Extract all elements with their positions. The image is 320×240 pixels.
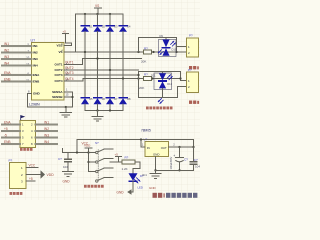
- svg-text:3C1: 3C1: [142, 173, 147, 177]
- svg-text:ENB: ENB: [33, 80, 40, 84]
- connector P3 (motor 2): [187, 68, 199, 93]
- svg-text:OUT4: OUT4: [65, 77, 74, 81]
- wire ground bus: [85, 109, 123, 111]
- svg-text:U?: U?: [31, 39, 36, 43]
- label motor1 (hanzi blobs): [189, 66, 199, 69]
- svg-text:+5: +5: [4, 127, 8, 131]
- svg-text:IN2: IN2: [33, 51, 38, 55]
- svg-text:C?: C?: [184, 158, 188, 162]
- svg-text:+5: +5: [63, 29, 67, 33]
- svg-text:P?: P?: [9, 158, 13, 162]
- wire LED to ground: [132, 181, 134, 192]
- power port VDD (arrow): [41, 170, 55, 179]
- wire P4 right IN4: [36, 140, 58, 144]
- wire P4 right IN1: [36, 121, 58, 125]
- svg-text:ENA: ENA: [33, 73, 40, 77]
- wire IN4: [2, 61, 32, 65]
- wire OUT2: [64, 66, 139, 71]
- wire IN2: [2, 48, 32, 52]
- wire OUT1: [64, 57, 142, 64]
- label control switch (hanzi blobs): [84, 185, 104, 188]
- switch S1 row 2: [89, 159, 114, 164]
- svg-text:D8: D8: [127, 97, 131, 101]
- svg-text:IN1: IN1: [44, 121, 49, 125]
- svg-text:D2: D2: [102, 25, 106, 29]
- wire VCC rail to regulator: [76, 138, 194, 153]
- label control interface under P4 (hanzi blobs): [20, 148, 33, 151]
- svg-text:104: 104: [63, 165, 68, 169]
- svg-text:SENSB: SENSB: [52, 95, 63, 99]
- wire regulator ground: [154, 157, 156, 174]
- wire OUT4 motor2 mid rail: [64, 77, 182, 81]
- wire column D3: [109, 32, 111, 98]
- svg-text:OUT4: OUT4: [54, 79, 62, 83]
- svg-text:S?: S?: [95, 141, 99, 145]
- switch S1 row 3: [89, 168, 114, 173]
- resistor R3: [122, 155, 136, 170]
- LED pair D11 D12 (motor2 direction): [151, 72, 173, 104]
- wire VCC: [26, 164, 38, 168]
- svg-text:+5: +5: [115, 152, 119, 156]
- wire ENB: [2, 77, 32, 81]
- svg-text:ENB: ENB: [4, 77, 11, 81]
- wire SENSA SENSB to ground: [64, 92, 74, 108]
- connector P2 (motor 1): [187, 33, 199, 57]
- svg-text:GND: GND: [33, 92, 41, 96]
- svg-text:IN4: IN4: [44, 140, 49, 144]
- wire P4 left ENB: [2, 140, 20, 144]
- svg-text:104: 104: [195, 165, 200, 169]
- IC U1 L298N: [26, 39, 69, 107]
- wire P4 right IN3: [36, 134, 58, 138]
- wire VS bus: [76, 13, 124, 52]
- svg-text:OUT1: OUT1: [65, 61, 74, 65]
- wire motor2 left loop: [137, 72, 186, 98]
- svg-text:D11: D11: [151, 74, 156, 78]
- svg-text:+5: +5: [29, 177, 33, 181]
- svg-text:+: +: [173, 154, 175, 158]
- svg-text:ENA: ENA: [4, 71, 11, 75]
- wire cap ground rail: [156, 169, 194, 171]
- svg-text:IN3: IN3: [4, 55, 9, 59]
- switch S1 row 4: [96, 178, 113, 183]
- svg-text:P?: P?: [189, 33, 193, 37]
- ground (under regulator): [150, 174, 161, 179]
- svg-text:GND: GND: [153, 152, 159, 156]
- svg-text:VS: VS: [95, 4, 99, 8]
- svg-text:SENSA: SENSA: [52, 90, 63, 94]
- capacitor C3: [190, 147, 200, 170]
- wire motor1 bottom rail: [152, 51, 187, 53]
- wire P4 left +5: [2, 127, 20, 131]
- svg-text:IN: IN: [147, 146, 150, 150]
- svg-text:GND: GND: [117, 190, 125, 194]
- svg-text:D7: D7: [114, 97, 118, 101]
- svg-text:IN3: IN3: [44, 134, 49, 138]
- wire rail VS to motor1: [64, 51, 144, 53]
- connector P1 (power): [9, 158, 27, 188]
- svg-text:OUT3: OUT3: [65, 71, 74, 75]
- diode D1: [81, 14, 93, 32]
- diode D4: [119, 14, 131, 32]
- wire P4 left ENA: [2, 121, 20, 125]
- svg-text:OUT2: OUT2: [65, 66, 74, 70]
- connector P4 (control header): [20, 116, 36, 148]
- regulator U2 7805: [142, 138, 175, 157]
- svg-text:C?: C?: [58, 157, 62, 161]
- svg-text:ENA: ENA: [4, 121, 11, 125]
- resistor R1: [141, 46, 152, 63]
- wire +5 out: [26, 177, 35, 181]
- svg-text:OUT2: OUT2: [54, 68, 62, 72]
- wire IN1: [2, 42, 32, 46]
- label external power (hanzi blobs): [10, 192, 23, 195]
- svg-text:D5: D5: [89, 97, 93, 101]
- ground (under C1): [63, 172, 74, 177]
- wire to power port VDD: [26, 174, 41, 176]
- svg-text:R?: R?: [144, 72, 148, 76]
- svg-text:D6: D6: [102, 97, 106, 101]
- diode D8: [119, 97, 131, 111]
- svg-text:IN2: IN2: [44, 127, 49, 131]
- svg-text:78M05: 78M05: [141, 129, 151, 133]
- wire R3 to LED: [133, 162, 140, 173]
- svg-text:IN4: IN4: [4, 61, 9, 65]
- label motor2 (hanzi blobs): [189, 101, 199, 104]
- svg-text:D12: D12: [167, 82, 172, 86]
- svg-text:1.2K: 1.2K: [122, 167, 128, 171]
- svg-text:D10: D10: [172, 48, 177, 52]
- wire LED feed: [110, 161, 122, 163]
- wire column D1: [84, 32, 86, 98]
- svg-text:VCC: VCC: [82, 142, 89, 146]
- diode D3: [106, 14, 118, 32]
- svg-text:D3: D3: [114, 25, 118, 29]
- diode D2: [94, 14, 106, 32]
- svg-text:IN4: IN4: [33, 64, 38, 68]
- svg-text:ENB: ENB: [4, 140, 11, 144]
- wire IN3: [2, 55, 32, 59]
- wire column D2: [97, 32, 99, 98]
- svg-text:20K: 20K: [141, 59, 146, 63]
- svg-text:C?: C?: [194, 158, 198, 162]
- svg-text:IN1: IN1: [33, 44, 38, 48]
- label motor direction indicator (hanzi blobs): [146, 107, 173, 110]
- power port VS: [95, 4, 102, 14]
- wire column D4: [122, 32, 124, 98]
- svg-text:OUT3: OUT3: [54, 73, 62, 77]
- svg-text:D9: D9: [160, 34, 164, 38]
- svg-text:20K: 20K: [139, 86, 144, 90]
- wire P4 left -5: [2, 134, 20, 138]
- svg-text:P?: P?: [188, 68, 192, 72]
- ground (under U1): [60, 107, 72, 117]
- power port GND (arrow left): [117, 189, 132, 195]
- power port VDD (tee above switch): [84, 144, 92, 153]
- svg-text:GND: GND: [63, 180, 71, 184]
- svg-text:R?: R?: [125, 155, 129, 159]
- watermark (hanzi blobs): [153, 193, 165, 198]
- svg-text:LED: LED: [138, 186, 143, 190]
- svg-text:-5: -5: [4, 134, 7, 138]
- diode D5: [81, 97, 93, 111]
- wire GND pin 8: [28, 94, 65, 108]
- svg-text:L298N: L298N: [29, 103, 40, 107]
- svg-text:OUT: OUT: [161, 146, 167, 150]
- svg-text:100uF/50V: 100uF/50V: [169, 157, 173, 170]
- svg-text:VDD: VDD: [47, 173, 55, 177]
- svg-text:R?: R?: [144, 46, 148, 50]
- svg-text:IN2: IN2: [4, 48, 9, 52]
- svg-text:IN3: IN3: [33, 57, 38, 61]
- svg-text:D4: D4: [127, 25, 131, 29]
- capacitor C1: [58, 149, 89, 172]
- wire OUT3 to motor2 top loop: [64, 71, 187, 80]
- svg-text:OUT1: OUT1: [54, 63, 62, 67]
- wire ENA: [2, 71, 32, 75]
- LED pair D9 D10 (motor1 direction): [158, 34, 177, 57]
- wire P4 right IN2: [36, 127, 58, 131]
- diode D6: [94, 97, 106, 111]
- power port +5 (to VSS pin 9): [63, 29, 72, 45]
- svg-text:VCC: VCC: [29, 164, 36, 168]
- switch S1 row 1: [89, 149, 114, 154]
- LED D13 (power indicator): [129, 173, 145, 189]
- diode D7: [106, 97, 118, 111]
- svg-text:GND: GND: [149, 186, 157, 190]
- power port +5 (LED feed): [115, 152, 122, 162]
- svg-text:D1: D1: [89, 25, 93, 29]
- ground (earth under diode bus): [92, 111, 103, 122]
- wire +5 rail: [169, 146, 195, 148]
- wire switch feed: [87, 151, 89, 171]
- capacitor C2 electrolytic: [169, 147, 188, 171]
- wire motor1 top loop: [139, 38, 187, 53]
- svg-text:IN1: IN1: [4, 42, 9, 46]
- resistor R2: [139, 72, 152, 89]
- switch S1 dashed gang bar: [97, 150, 99, 182]
